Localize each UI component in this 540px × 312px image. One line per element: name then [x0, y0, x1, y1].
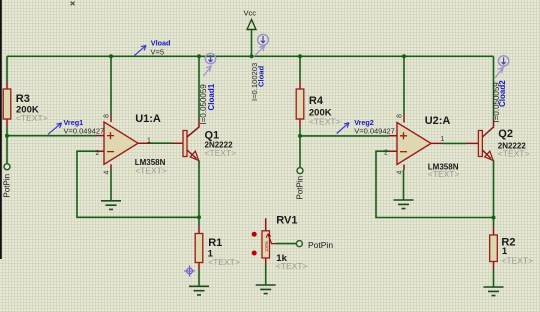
svg-text:100%: 100%: [264, 241, 269, 252]
ground (R2): [484, 287, 504, 296]
ground (R1): [189, 286, 209, 295]
wire: R4 top to rail: [299, 56, 301, 81]
svg-text:2: 2: [384, 150, 388, 157]
svg-text:Q2: Q2: [498, 128, 513, 140]
wire: U2 feedback loop: [376, 151, 494, 217]
wire: Q2 base: [443, 142, 466, 144]
svg-text:8: 8: [396, 114, 403, 118]
wire: R1 bottom to ground: [198, 271, 200, 287]
junction node on rail at R4: [298, 54, 302, 58]
voltage probe label Vreg1: [48, 118, 104, 136]
svg-text:RV1: RV1: [276, 214, 297, 226]
origin marker near R1: [184, 265, 195, 276]
svg-text:Cload: Cload: [257, 66, 266, 87]
wire: left rail lower to PotPin terminal: [6, 127, 8, 164]
terminal PotPin at RV1 wiper: [296, 240, 333, 250]
svg-text:<TEXT>: <TEXT>: [208, 257, 240, 267]
current probe Cload2 on Q2 collector: [492, 56, 509, 123]
svg-text:<TEXT>: <TEXT>: [501, 255, 533, 265]
wire: node A to U1 noninverting input: [7, 135, 96, 137]
wire: R4 bottom to PotPin terminal: [299, 127, 301, 168]
wire: U1 pin8 to rail: [110, 56, 112, 114]
wire: Q2 collector to rail: [493, 56, 495, 119]
svg-text:<TEXT>: <TEXT>: [276, 261, 308, 271]
svg-text:<TEXT>: <TEXT>: [498, 148, 530, 158]
junction node on rail at U2 pin8: [402, 54, 406, 58]
wire: Q1 base: [150, 142, 172, 144]
wire: RV1 bottom to ground: [265, 266, 267, 285]
svg-text:V=5: V=5: [151, 48, 165, 57]
wire: Vcc stub: [251, 30, 253, 57]
svg-text:R1: R1: [208, 237, 222, 249]
voltage probe label Vreg2: [337, 118, 395, 135]
wire: node B to U2 noninverting input: [300, 135, 389, 137]
svg-text:U1:A: U1:A: [135, 113, 161, 125]
svg-text:8: 8: [103, 114, 110, 118]
wire: RV1 wiper to PotPin terminal: [276, 243, 296, 245]
transistor Q1: [183, 119, 236, 161]
svg-text:U2:A: U2:A: [425, 115, 451, 127]
resistor R1: [195, 226, 240, 271]
ground (U2 pin4): [394, 200, 414, 209]
svg-text:<TEXT>: <TEXT>: [135, 166, 167, 176]
wire: Q1 collector to rail: [198, 56, 200, 119]
wire: left rail upper: [6, 56, 8, 81]
junction node C at R1 top: [197, 215, 201, 219]
svg-text:R3: R3: [16, 93, 30, 105]
svg-text:Q1: Q1: [205, 129, 220, 141]
terminal PotPin left: [2, 164, 11, 198]
current probe Cload1 on Q1 collector: [199, 53, 216, 124]
svg-text:Vload: Vload: [151, 39, 171, 48]
wire: top power rail: [7, 55, 494, 57]
svg-text:V=0.049427: V=0.049427: [64, 126, 105, 135]
svg-text:Vcc: Vcc: [244, 9, 257, 18]
junction node D at R2 top: [492, 216, 496, 220]
svg-text:V=0.049427: V=0.049427: [354, 126, 395, 135]
svg-text:Cload1: Cload1: [207, 83, 216, 110]
Vcc power symbol: [244, 9, 257, 30]
svg-text:1: 1: [441, 136, 445, 143]
resistor R3: [3, 81, 47, 127]
resistor R2: [490, 227, 533, 270]
wire: U1 pin4 to ground: [110, 170, 112, 201]
wire: U2 pin8 to rail: [403, 56, 405, 114]
junction node B below R4: [298, 134, 302, 138]
wire: Q2 emitter to node D: [493, 161, 495, 228]
wire: Q1 emitter to node C: [198, 161, 200, 226]
op-amp U1: [96, 113, 184, 176]
junction node on rail at Q1 collector: [197, 54, 201, 58]
svg-text:R4: R4: [309, 95, 324, 107]
wire: U2 pin4 to ground: [403, 170, 405, 200]
potentiometer RV1: [252, 214, 308, 271]
svg-text:<TEXT>: <TEXT>: [309, 116, 341, 126]
transistor Q2: [478, 119, 529, 161]
ground (U1 pin4): [101, 201, 121, 210]
terminal PotPin middle: [295, 168, 304, 200]
svg-text:<TEXT>: <TEXT>: [205, 148, 237, 158]
svg-text:Cload2: Cload2: [498, 80, 507, 107]
wire: U1 feedback loop: [77, 151, 199, 217]
junction node A left rail: [5, 134, 9, 138]
svg-text:4: 4: [396, 171, 403, 175]
svg-text:4: 4: [103, 171, 110, 175]
svg-text:<TEXT>: <TEXT>: [16, 113, 48, 123]
voltage probe label Vload: [135, 39, 171, 57]
svg-text:PotPin: PotPin: [2, 174, 11, 198]
junction node on rail at Vcc: [250, 54, 254, 58]
junction node on rail at U1 pin8: [109, 54, 113, 58]
resistor R4: [296, 81, 340, 127]
op-amp U2: [384, 114, 478, 179]
svg-text:PotPin: PotPin: [308, 240, 333, 250]
svg-text:PotPin: PotPin: [295, 176, 304, 200]
svg-text:<TEXT>: <TEXT>: [428, 169, 460, 179]
current probe Cload on Vcc stub: [250, 34, 268, 101]
ground (RV1): [256, 285, 276, 294]
wire: R2 bottom to ground: [493, 270, 495, 288]
svg-text:1: 1: [147, 137, 151, 144]
svg-text:2: 2: [96, 150, 100, 157]
